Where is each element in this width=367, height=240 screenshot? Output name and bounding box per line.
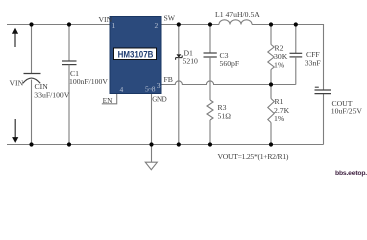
junction: D1 top <box>177 22 181 26</box>
junction: CIN top <box>29 22 33 26</box>
junction: R1 bottom <box>269 142 273 146</box>
svg-text:3: 3 <box>157 81 161 90</box>
wire GND pin <box>151 94 153 145</box>
resistor R3 <box>207 100 213 120</box>
svg-text:GND: GND <box>152 96 166 104</box>
capacitor CIN <box>31 25 33 74</box>
diode D1 triangle <box>177 54 182 58</box>
wire COUT to bottom rail <box>323 94 325 145</box>
wire output rail <box>252 25 324 91</box>
svg-text:100nF/100V: 100nF/100V <box>69 77 108 86</box>
inductor L1 <box>219 20 252 25</box>
capacitor COUT <box>315 89 332 91</box>
junction: R2 top <box>269 22 273 26</box>
ground symbol <box>151 145 153 163</box>
VIN up arrow head <box>12 28 18 34</box>
svg-text:VIN: VIN <box>99 15 113 24</box>
capacitor C1 <box>68 25 70 62</box>
junction: C3 top <box>208 22 212 26</box>
wire top rail left <box>7 24 111 26</box>
VIN down arrow head <box>12 137 18 143</box>
junction: D1 bottom <box>177 142 181 146</box>
svg-text:SW: SW <box>164 14 176 23</box>
svg-text:HM3107B: HM3107B <box>118 50 154 61</box>
svg-text:33nF: 33nF <box>305 58 321 67</box>
junction: CIN bottom <box>29 142 33 146</box>
svg-text:EN: EN <box>103 96 114 105</box>
junction: FB node <box>269 82 273 86</box>
svg-text:VIN: VIN <box>10 79 24 88</box>
svg-text:5210: 5210 <box>183 57 199 66</box>
resistor R1 <box>270 85 272 99</box>
VIN down arrow stem <box>14 119 16 137</box>
svg-text:bbs.eetop.cn: bbs.eetop.cn <box>335 170 367 177</box>
svg-text:2: 2 <box>155 21 159 30</box>
svg-text:1%: 1% <box>274 61 285 70</box>
junction: CFF top <box>294 22 298 26</box>
svg-text:51Ω: 51Ω <box>218 112 232 121</box>
wire EN stub <box>102 94 117 104</box>
capacitor CFF <box>295 25 297 54</box>
wire FB net with hops <box>161 81 296 85</box>
svg-text:560pF: 560pF <box>220 59 240 68</box>
IC U1 HM3107B body <box>110 17 161 94</box>
capacitor C3 <box>209 25 211 54</box>
diode D1 <box>178 25 180 55</box>
svg-text:4: 4 <box>120 85 124 94</box>
svg-text:1%: 1% <box>274 114 285 123</box>
U1 part label box <box>114 48 157 60</box>
svg-text:10uF/25V: 10uF/25V <box>331 107 363 116</box>
resistor R2 <box>270 25 272 45</box>
VIN up arrow stem <box>14 34 16 48</box>
wire top rail SW to L1 <box>161 24 219 26</box>
svg-text:5~8: 5~8 <box>145 85 156 94</box>
junction: R3 bottom <box>208 142 212 146</box>
wire bottom rail <box>7 144 324 146</box>
svg-text:L1 47uH/0.5A: L1 47uH/0.5A <box>215 10 260 19</box>
svg-text:33uF/100V: 33uF/100V <box>34 91 69 100</box>
svg-text:FB: FB <box>164 75 173 84</box>
svg-text:R1: R1 <box>275 97 284 106</box>
junction: GND bottom <box>149 142 153 146</box>
junction: C1 bottom <box>67 142 71 146</box>
svg-text:VOUT=1.25*(1+R2/R1): VOUT=1.25*(1+R2/R1) <box>218 152 289 161</box>
junction: C1 top <box>67 22 71 26</box>
